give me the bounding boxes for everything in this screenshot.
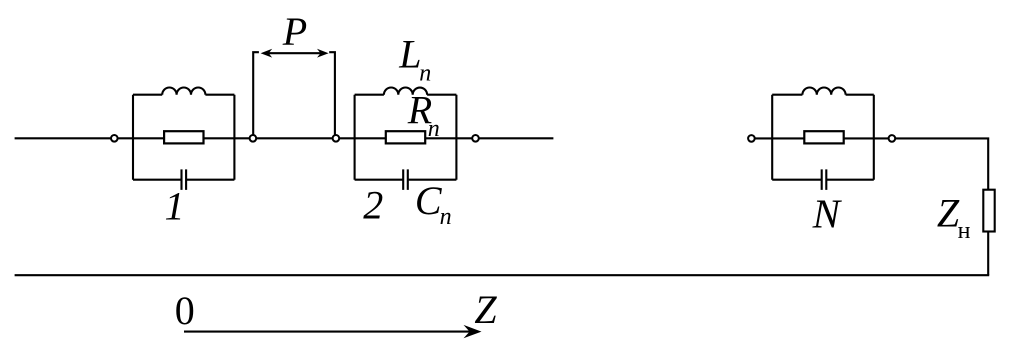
svg-text:n: n: [440, 204, 452, 230]
svg-text:н: н: [958, 218, 971, 244]
svg-text:Z: Z: [937, 190, 960, 235]
svg-text:n: n: [419, 61, 431, 87]
svg-text:N: N: [812, 190, 843, 236]
svg-text:P: P: [282, 9, 307, 54]
svg-text:n: n: [428, 116, 440, 142]
svg-text:0: 0: [175, 288, 195, 333]
svg-text:2: 2: [363, 183, 383, 228]
svg-text:Z: Z: [474, 287, 497, 332]
svg-text:1: 1: [165, 184, 185, 229]
svg-text:L: L: [398, 32, 421, 77]
